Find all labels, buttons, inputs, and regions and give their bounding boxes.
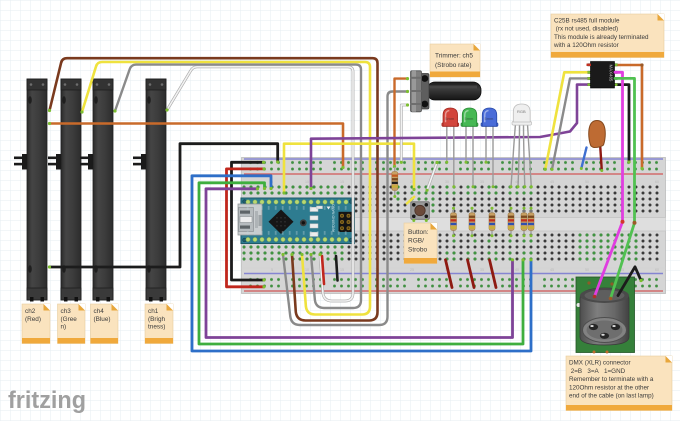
- svg-text:45: 45: [550, 268, 554, 272]
- wire orange U1 to rail: [615, 65, 642, 169]
- svg-text:Remember to terminate with a: Remember to terminate with a: [569, 376, 654, 383]
- note button: [404, 223, 437, 264]
- note trimmer: [430, 44, 480, 77]
- svg-text:35: 35: [480, 268, 484, 272]
- svg-text:Strobo: Strobo: [408, 246, 428, 253]
- resistor R7 near button: [392, 167, 398, 198]
- note C25B rs485: [551, 14, 664, 58]
- svg-text:DMX (XLR) connector: DMX (XLR) connector: [569, 360, 631, 367]
- svg-text:n): n): [61, 324, 67, 331]
- note ch2: [22, 304, 50, 344]
- svg-text:15: 15: [340, 268, 344, 272]
- LED red D1: [442, 108, 459, 188]
- capacitor C1: [580, 121, 605, 173]
- slide potentiometer ch4: [80, 79, 113, 302]
- wire orange slider1 supply: [50, 124, 344, 168]
- svg-text:(Red): (Red): [25, 316, 41, 323]
- wire black U1 to rail: [615, 85, 629, 162]
- wire orange trimmer supply: [395, 79, 408, 167]
- svg-text:10: 10: [305, 180, 309, 184]
- breadboard: [242, 158, 666, 294]
- svg-text:30: 30: [445, 180, 449, 184]
- svg-text:ch2: ch2: [25, 308, 36, 315]
- svg-text:Button:: Button:: [408, 229, 429, 236]
- svg-text:RGB/: RGB/: [408, 238, 424, 245]
- wire white jumper near button: [427, 163, 437, 191]
- svg-text:5mm: 5mm: [465, 116, 475, 121]
- wire endpoint dots: [48, 77, 644, 288]
- note ch4: [91, 304, 119, 344]
- svg-text:60: 60: [655, 180, 659, 184]
- wire red rail jumper left: [227, 169, 265, 287]
- note ch3: [58, 304, 86, 344]
- breadboard connected-strip green holes: [243, 186, 638, 261]
- wire red jumper mid: [322, 256, 324, 284]
- svg-text:ch3: ch3: [61, 308, 72, 315]
- wire black jumper mid: [336, 256, 338, 281]
- svg-text:60: 60: [655, 268, 659, 272]
- slide potentiometer ch3: [48, 79, 81, 302]
- svg-text:RGB: RGB: [517, 109, 526, 114]
- LED blue D3: [481, 108, 498, 188]
- trimmer potentiometer ch5: [411, 71, 482, 112]
- wire dark red jumper 2: [468, 260, 475, 288]
- MAX485 IC U1: [587, 62, 618, 89]
- svg-text:This module is already termina: This module is already terminated: [554, 34, 649, 41]
- wire magenta U1 to XLR: [595, 72, 623, 296]
- wire dark red jumper 1: [446, 260, 453, 288]
- LED RGB D4: [510, 104, 533, 188]
- svg-text:with a 120Ohm resistor: with a 120Ohm resistor: [553, 42, 619, 49]
- wire brown slider1-A1: [50, 58, 378, 320]
- svg-text:MAX485: MAX485: [609, 65, 614, 82]
- svg-text:45: 45: [550, 180, 554, 184]
- svg-text:C25B rs485 full module: C25B rs485 full module: [554, 18, 620, 25]
- wire grey slider3-A3: [115, 65, 361, 308]
- wire white trimmer gnd: [401, 105, 407, 162]
- svg-text:25: 25: [410, 268, 414, 272]
- wire black rail jumper left: [232, 162, 265, 280]
- svg-text:Trimmer: ch5: Trimmer: ch5: [435, 53, 473, 60]
- wire dark red jumper 3: [490, 260, 497, 288]
- wire black slider ground loop: [50, 144, 278, 267]
- svg-text:5mm: 5mm: [445, 116, 455, 121]
- wire purple bus to U1: [311, 85, 591, 189]
- svg-text:50: 50: [585, 180, 589, 184]
- wire white slider4-A4: [167, 67, 353, 301]
- wire green long loop: [199, 183, 523, 344]
- Arduino Nano U2: [238, 198, 355, 244]
- pushbutton S1: [411, 202, 430, 222]
- wire yellow slider2-A2: [82, 62, 370, 315]
- svg-text:fritzing: fritzing: [8, 387, 86, 414]
- slide potentiometer ch2: [14, 79, 47, 302]
- svg-text:15: 15: [340, 180, 344, 184]
- svg-text:(Blue): (Blue): [94, 316, 111, 323]
- svg-text:35: 35: [480, 180, 484, 184]
- svg-text:(Gree: (Gree: [61, 316, 78, 323]
- svg-text:ch4: ch4: [94, 308, 105, 315]
- svg-text:2=B 3=A 1=GND: 2=B 3=A 1=GND: [569, 368, 626, 375]
- wire grey trimmer-A0: [283, 92, 408, 326]
- resistors R1-R6: [451, 207, 457, 238]
- svg-text:5: 5: [271, 268, 273, 272]
- svg-text:(rx not used, disabled): (rx not used, disabled): [554, 26, 618, 33]
- wire purple long loop: [206, 189, 513, 338]
- wire yellow button stub: [407, 197, 415, 204]
- svg-text:(Strobo rate): (Strobo rate): [435, 62, 472, 69]
- svg-text:tness): tness): [148, 324, 165, 331]
- svg-text:50: 50: [585, 268, 589, 272]
- svg-text:(Brigh: (Brigh: [148, 316, 165, 323]
- wire black XLR ground: [618, 267, 641, 296]
- wire blue long loop: [192, 176, 531, 351]
- wire green U1 to XLR: [611, 78, 635, 298]
- svg-text:120Ohm resistor at the other: 120Ohm resistor at the other: [569, 384, 649, 391]
- wire yellow button-D-pin: [284, 144, 414, 193]
- svg-text:10: 10: [305, 268, 309, 272]
- slide potentiometer ch1: [133, 79, 166, 302]
- wire yellow U1: [545, 72, 591, 169]
- svg-text:ARDUINO NANO: ARDUINO NANO: [332, 204, 336, 232]
- LED green D2: [461, 108, 478, 188]
- wire grey U1: [552, 78, 591, 169]
- note ch1: [145, 304, 173, 344]
- breadboard column labels: [271, 180, 659, 272]
- svg-text:5mm: 5mm: [485, 116, 495, 121]
- svg-text:ch1: ch1: [148, 308, 159, 315]
- svg-text:end of the cable (on last lamp: end of the cable (on last lamp): [569, 393, 654, 400]
- XLR DMX connector J1: [576, 277, 635, 354]
- note DMX XLR: [566, 356, 672, 411]
- svg-text:40: 40: [515, 268, 519, 272]
